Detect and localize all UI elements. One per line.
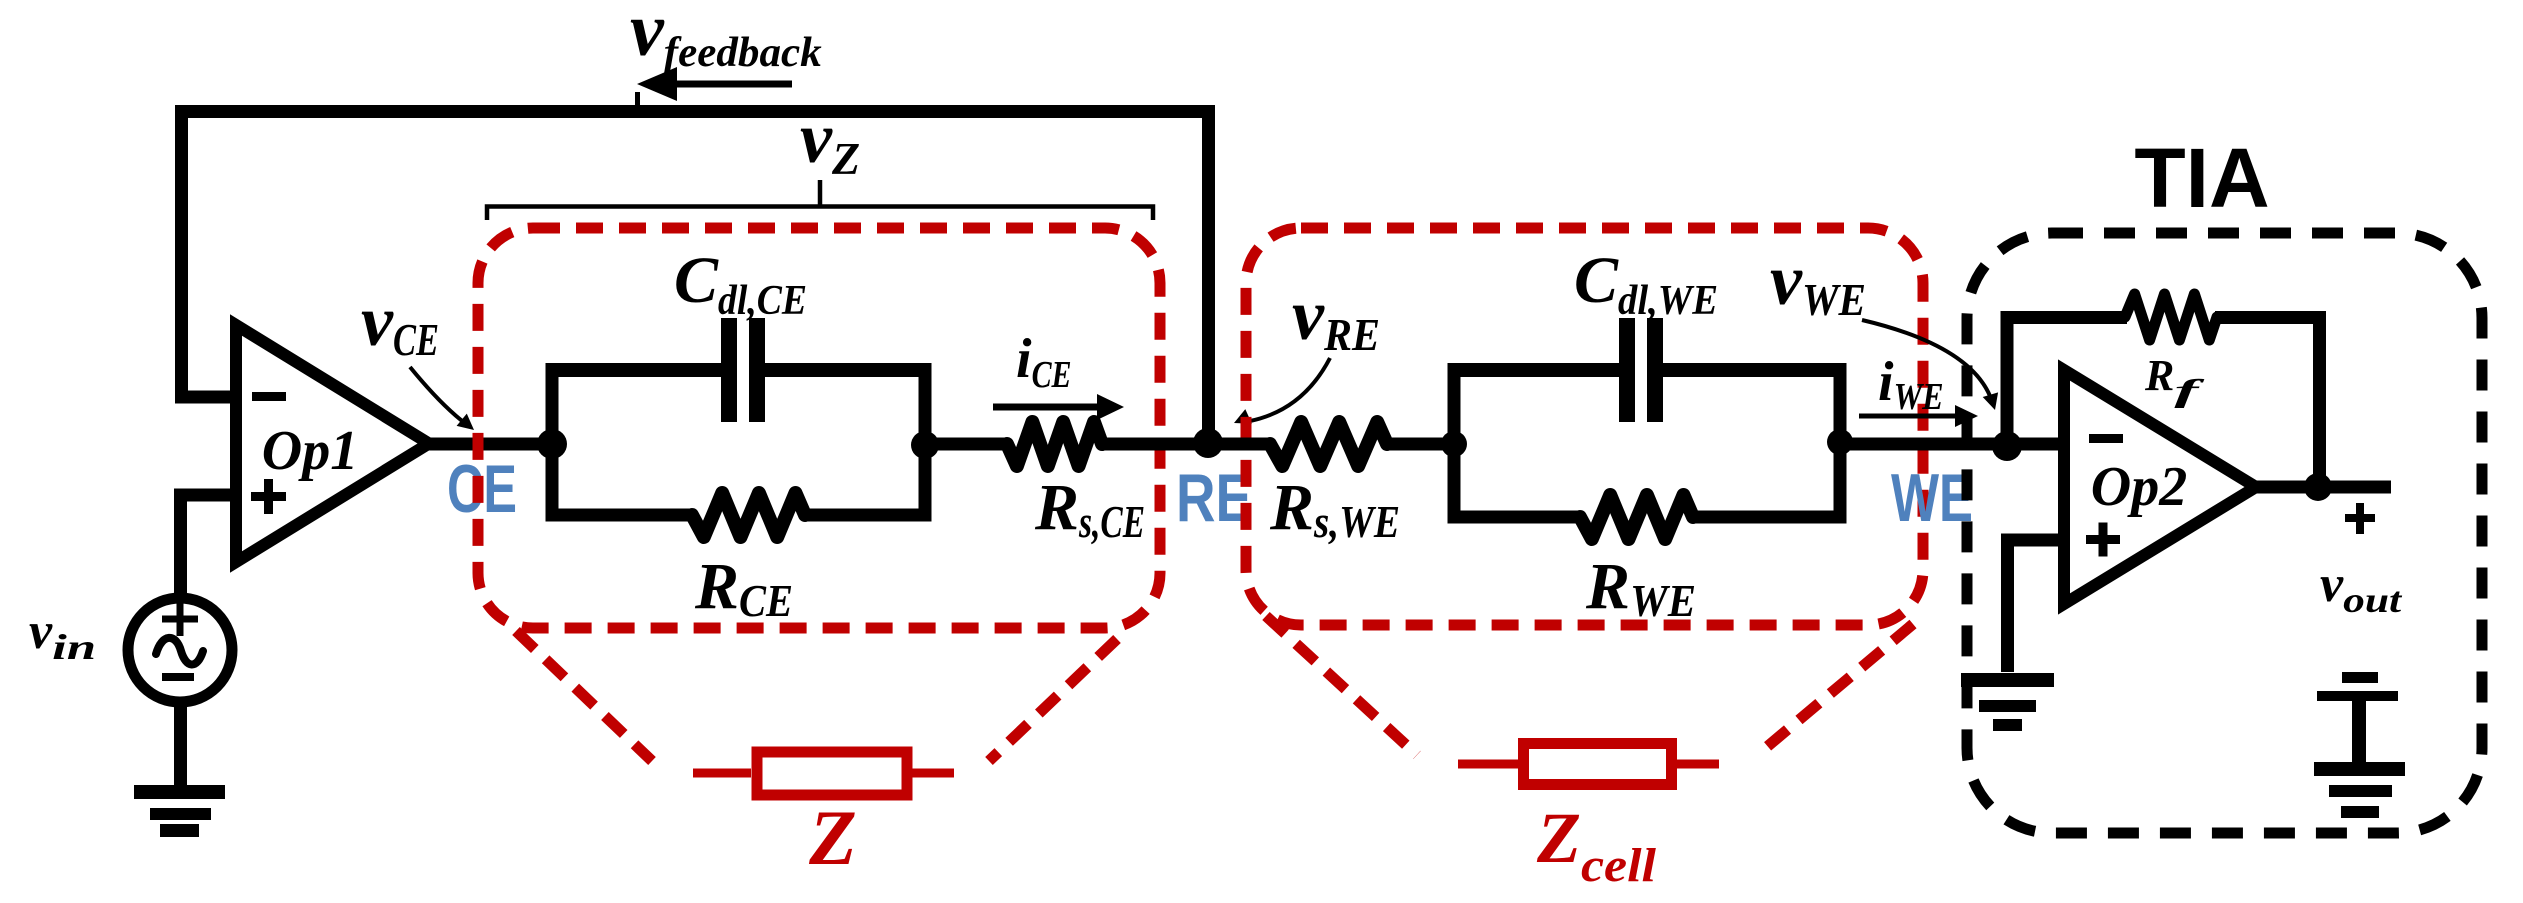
svg-text:Op2: Op2 [2091, 456, 2187, 518]
impedance Z symbol (red box resistor) [693, 769, 954, 778]
TIA black dashed box [1967, 233, 2482, 833]
wire WE bottom branch [1448, 511, 1847, 524]
i_CE current arrow [993, 404, 1098, 411]
vin sine symbol [156, 638, 203, 665]
ground at Op2 + input [1961, 673, 2054, 687]
wire RE to R_s,WE [1208, 438, 1272, 451]
red dashed box around WE interface model [1246, 228, 1923, 625]
wire R_s,WE to parallel network [1385, 438, 1454, 451]
node junction left of RC (WE) [1441, 431, 1467, 457]
resistor R_WE [1580, 495, 1693, 539]
reference symbol (bar + ground) at output [2342, 672, 2378, 683]
vin minus sign [162, 673, 194, 681]
wire Op1 non-inverting input stub + down to source [181, 495, 243, 600]
wire WE parallel branch right rail [1834, 370, 1847, 517]
capacitor C_dl,WE plates [1619, 318, 1635, 422]
resistor Rf [2125, 294, 2217, 340]
wire feedback loop (top horizontal + left vertical + right vertical down to RE) [182, 112, 1209, 445]
v_RE arrow [1250, 358, 1330, 421]
resistor R_CE [692, 493, 805, 537]
op-amp Op2 triangle [2064, 370, 2256, 604]
wire R_s,CE to node RE [1100, 438, 1208, 451]
wire source to ground [174, 698, 187, 790]
node junction right of RC (WE) [1827, 429, 1853, 455]
svg-text:Z: Z [808, 794, 857, 881]
impedance Z_cell symbol (red box resistor) [1458, 760, 1719, 769]
node CE dot [537, 429, 567, 459]
capacitor C_dl,CE plates [721, 318, 737, 422]
funnel dashes from CE box to Z symbol [516, 631, 652, 761]
wire Op1 output to node CE [425, 438, 558, 451]
wire CE parallel branch right rail [919, 370, 932, 515]
resistor R_s,CE [1007, 422, 1102, 466]
tick on feedback wire [635, 92, 640, 112]
v_feedback arrow [668, 81, 792, 88]
wire CE parallel branch left rail [546, 370, 559, 515]
wire Op2 output [2252, 481, 2391, 494]
wire CE top branch [546, 363, 932, 377]
node RE dot [1193, 428, 1223, 458]
Op1 plus sign [251, 492, 286, 501]
svg-text:TIA: TIA [2134, 131, 2269, 225]
v_WE arrow [1862, 320, 1990, 396]
funnel dashes from WE box to Z_cell symbol [1266, 616, 1417, 755]
svg-text:WE: WE [1891, 460, 1973, 536]
op-amp Op1 triangle [236, 325, 429, 562]
vin plus sign [162, 616, 198, 623]
red dashed box around CE interface model [478, 228, 1160, 628]
wire WE parallel branch left rail [1448, 370, 1461, 517]
node Op2 output dot [2304, 473, 2332, 501]
ground under vin [134, 785, 225, 799]
resistor R_s,WE [1270, 422, 1387, 466]
wire Rf feedback loop [2007, 318, 2320, 488]
wire WE top branch [1448, 363, 1847, 377]
wire Op2 non-inverting input to ground [2008, 540, 2065, 672]
Op2 plus sign [2086, 535, 2120, 544]
wire CE bottom branch [546, 509, 932, 522]
node junction right of RC [911, 431, 939, 459]
Op2 minus sign [2089, 434, 2123, 443]
source vin circle [128, 598, 232, 702]
v_CE arrow [410, 367, 466, 424]
v_Z bracket [487, 207, 1153, 221]
node WE dot [1992, 431, 2022, 461]
i_WE current arrow [1859, 414, 1956, 419]
v_out plus sign [2345, 514, 2375, 522]
wire node to R_s,CE [925, 438, 1010, 451]
wire Op1 inverting input stub [175, 391, 242, 404]
Op1 minus sign [252, 392, 286, 401]
wire to node WE and Op2 [1840, 438, 2064, 451]
svg-text:Op1: Op1 [262, 420, 358, 482]
